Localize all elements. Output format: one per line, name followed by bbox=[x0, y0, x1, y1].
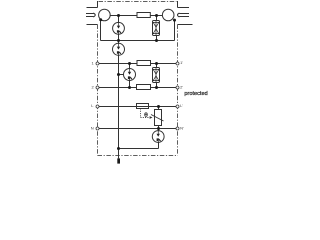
svg-text:N: N bbox=[91, 126, 94, 131]
svg-text:1': 1' bbox=[180, 60, 183, 65]
svg-text:L: L bbox=[91, 103, 94, 108]
svg-text:protected: protected bbox=[184, 91, 207, 97]
svg-text:N': N' bbox=[180, 126, 184, 131]
svg-text:2': 2' bbox=[180, 85, 183, 90]
svg-text:2: 2 bbox=[91, 85, 94, 90]
svg-text:1: 1 bbox=[91, 60, 94, 65]
svg-text:L': L' bbox=[180, 103, 183, 108]
